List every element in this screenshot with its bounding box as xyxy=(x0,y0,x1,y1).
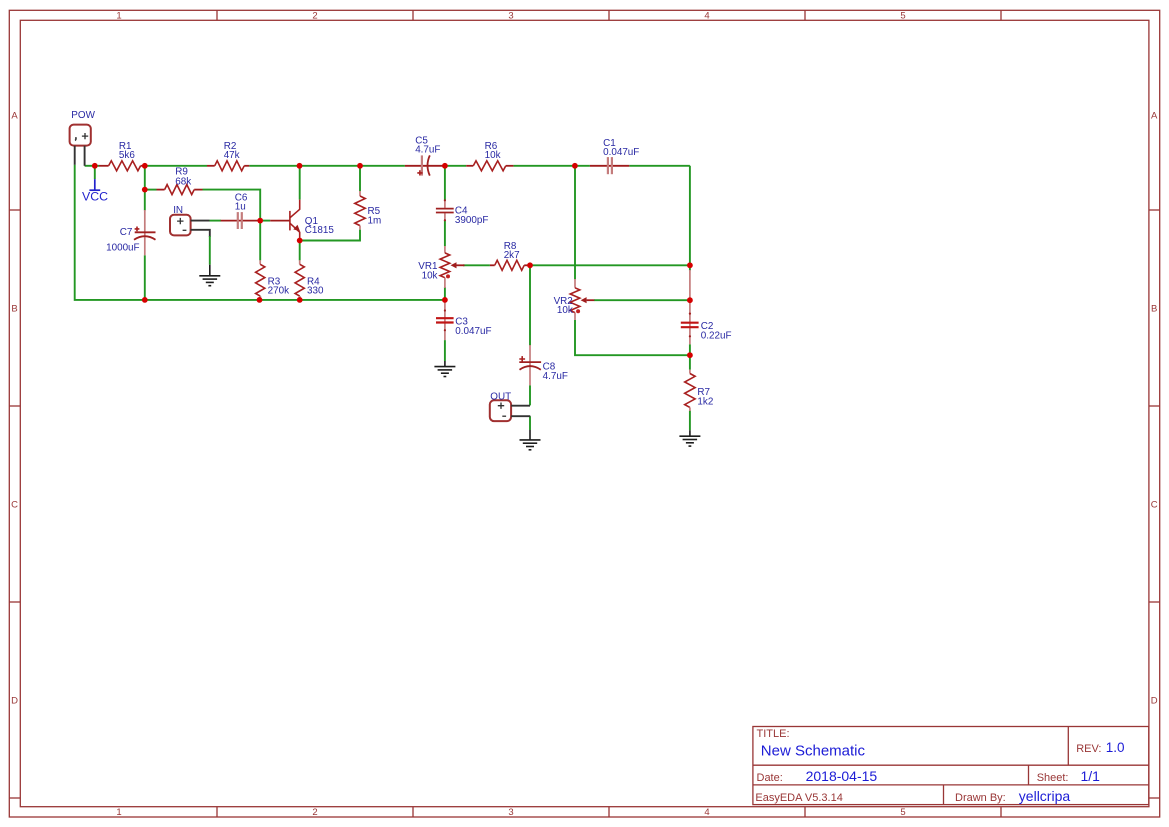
wire VR2 bottom to rail row xyxy=(575,320,690,355)
svg-text:Drawn By:: Drawn By: xyxy=(955,792,1006,804)
svg-text:2018-04-15: 2018-04-15 xyxy=(806,768,878,784)
svg-text:0.047uF: 0.047uF xyxy=(455,326,491,337)
resistor R4 xyxy=(295,260,324,298)
wire R9 right to C6 node xyxy=(203,190,261,221)
wire C4 to VR1 xyxy=(444,220,446,246)
wire POW pin1 down and bottom rail xyxy=(75,165,445,300)
svg-text:D: D xyxy=(11,695,18,706)
svg-text:C1815: C1815 xyxy=(305,225,335,236)
capacitor C3 xyxy=(436,300,492,340)
svg-text:B: B xyxy=(11,303,17,314)
wire R6 to C1 xyxy=(513,165,590,167)
svg-text:1/1: 1/1 xyxy=(1081,768,1101,784)
svg-text:3: 3 xyxy=(508,11,513,22)
svg-text:B: B xyxy=(1151,303,1157,314)
svg-text:1: 1 xyxy=(116,11,121,22)
svg-text:68k: 68k xyxy=(175,176,191,187)
wire C6 node down to R3 xyxy=(259,221,261,261)
svg-text:2: 2 xyxy=(312,11,317,22)
wire R5 top column xyxy=(359,166,361,191)
resistor R9 xyxy=(157,167,203,195)
wire R9 node down to C7 xyxy=(144,190,146,211)
svg-text:3: 3 xyxy=(508,807,513,818)
potentiometer VR1 xyxy=(418,246,464,288)
svg-text:4.7uF: 4.7uF xyxy=(415,145,440,156)
capacitor C1 xyxy=(590,138,639,174)
wire IN minus to ground xyxy=(209,236,211,265)
potentiometer VR2 xyxy=(554,279,595,320)
svg-text:10k: 10k xyxy=(557,305,573,316)
svg-text:5: 5 xyxy=(900,807,905,818)
ground below OUT xyxy=(520,430,541,450)
svg-text:10k: 10k xyxy=(485,150,501,161)
wire IN plus to C6 pin xyxy=(210,220,222,222)
ground below R7 xyxy=(679,430,700,446)
wire OUT minus down xyxy=(529,416,531,430)
svg-text:EasyEDA V5.3.14: EasyEDA V5.3.14 xyxy=(755,792,842,804)
svg-text:REV:: REV: xyxy=(1076,743,1101,755)
svg-text:Sheet:: Sheet: xyxy=(1037,772,1069,784)
svg-text:D: D xyxy=(1151,695,1158,706)
wire VR1 to bottom rail xyxy=(444,287,446,300)
svg-text:2k7: 2k7 xyxy=(504,250,520,261)
wire C1 node down to VR2 xyxy=(574,166,576,279)
transistor Q1 xyxy=(270,200,334,241)
svg-text:C7: C7 xyxy=(120,227,133,238)
svg-text:A: A xyxy=(11,110,18,121)
capacitor C4 xyxy=(436,199,489,226)
resistor R1 xyxy=(99,141,145,171)
connector POW xyxy=(70,110,96,166)
resistor R5 xyxy=(355,191,381,230)
wire R1 to R2 xyxy=(145,165,207,167)
svg-text:TITLE:: TITLE: xyxy=(757,728,790,740)
wire collector column xyxy=(299,166,301,200)
svg-text:1: 1 xyxy=(116,807,121,818)
power flag VCC xyxy=(82,166,108,204)
resistor R2 xyxy=(207,141,249,171)
wire C8 to OUT plus xyxy=(529,385,531,405)
wire R8 node down to C8 xyxy=(529,265,531,345)
svg-text:VCC: VCC xyxy=(82,190,108,204)
svg-text:C: C xyxy=(1151,499,1158,510)
connector IN xyxy=(170,205,210,237)
svg-text:0.22uF: 0.22uF xyxy=(701,331,732,342)
svg-text:IN: IN xyxy=(173,205,183,216)
svg-text:Date:: Date: xyxy=(757,772,783,784)
capacitor C7 polarized xyxy=(106,210,155,255)
svg-text:1u: 1u xyxy=(235,202,246,213)
svg-text:4: 4 xyxy=(704,11,709,22)
title block xyxy=(753,727,1149,805)
wire R1 node down to R9 node xyxy=(144,166,146,190)
wire C6 node to Q1 base stub xyxy=(260,220,270,222)
svg-text:4: 4 xyxy=(704,807,709,818)
wire right rail R7 to ground xyxy=(689,411,691,431)
wire right rail upper xyxy=(689,166,691,271)
wire C3 to ground xyxy=(444,340,446,361)
svg-text:5k6: 5k6 xyxy=(119,150,135,161)
svg-text:1m: 1m xyxy=(368,215,382,226)
svg-text:New Schematic: New Schematic xyxy=(761,743,866,760)
svg-text:1000uF: 1000uF xyxy=(106,242,140,253)
svg-text:10k: 10k xyxy=(422,270,438,281)
capacitor C5 polarized xyxy=(405,135,444,175)
junction dots xyxy=(92,163,693,358)
ground at IN xyxy=(199,265,220,286)
svg-text:1k2: 1k2 xyxy=(697,396,713,407)
svg-text:330: 330 xyxy=(307,286,324,297)
capacitor C6 xyxy=(221,192,261,229)
wire C5 node down to C4 xyxy=(444,166,446,201)
wire POW plus to R1 xyxy=(85,165,99,167)
svg-text:2: 2 xyxy=(312,807,317,818)
capacitor C8 polarized xyxy=(519,345,568,385)
svg-text:yellcripa: yellcripa xyxy=(1019,788,1071,804)
svg-text:4.7uF: 4.7uF xyxy=(543,371,568,382)
wire C7 to bottom rail xyxy=(144,255,146,300)
wire emitter row to R5 xyxy=(300,230,360,241)
svg-text:1.0: 1.0 xyxy=(1106,740,1125,755)
wire R4 bottom stub xyxy=(299,296,301,300)
svg-text:270k: 270k xyxy=(268,286,289,297)
wire C1 to top right corner xyxy=(629,165,690,167)
wire VR2 wiper row xyxy=(594,299,690,301)
svg-text:3900pF: 3900pF xyxy=(455,215,489,226)
svg-text:5: 5 xyxy=(900,11,905,22)
resistor R8 xyxy=(490,241,530,270)
svg-text:0.047uF: 0.047uF xyxy=(603,147,639,158)
svg-text:POW: POW xyxy=(71,110,95,121)
resistor R6 xyxy=(466,141,513,171)
wire R9 left lead joint xyxy=(145,189,157,191)
resistor R3 xyxy=(256,260,289,298)
wire C5 node to R6 xyxy=(445,165,466,167)
svg-text:47k: 47k xyxy=(224,150,240,161)
wire VR1 wiper to R8 xyxy=(463,264,490,266)
wire right rail C2 to R7 xyxy=(689,344,691,369)
wire emitter down to R4 xyxy=(299,241,301,261)
connector OUT xyxy=(490,391,531,421)
wire R3 bottom stub xyxy=(259,296,261,300)
wire R2 to C5 xyxy=(249,165,405,167)
svg-text:A: A xyxy=(1151,110,1158,121)
ground below C3 xyxy=(434,361,455,377)
svg-text:OUT: OUT xyxy=(490,391,511,402)
wire R8 to right rail xyxy=(530,264,690,266)
svg-text:C: C xyxy=(11,499,18,510)
resistor R7 xyxy=(685,370,714,411)
capacitor C2 xyxy=(681,270,732,344)
